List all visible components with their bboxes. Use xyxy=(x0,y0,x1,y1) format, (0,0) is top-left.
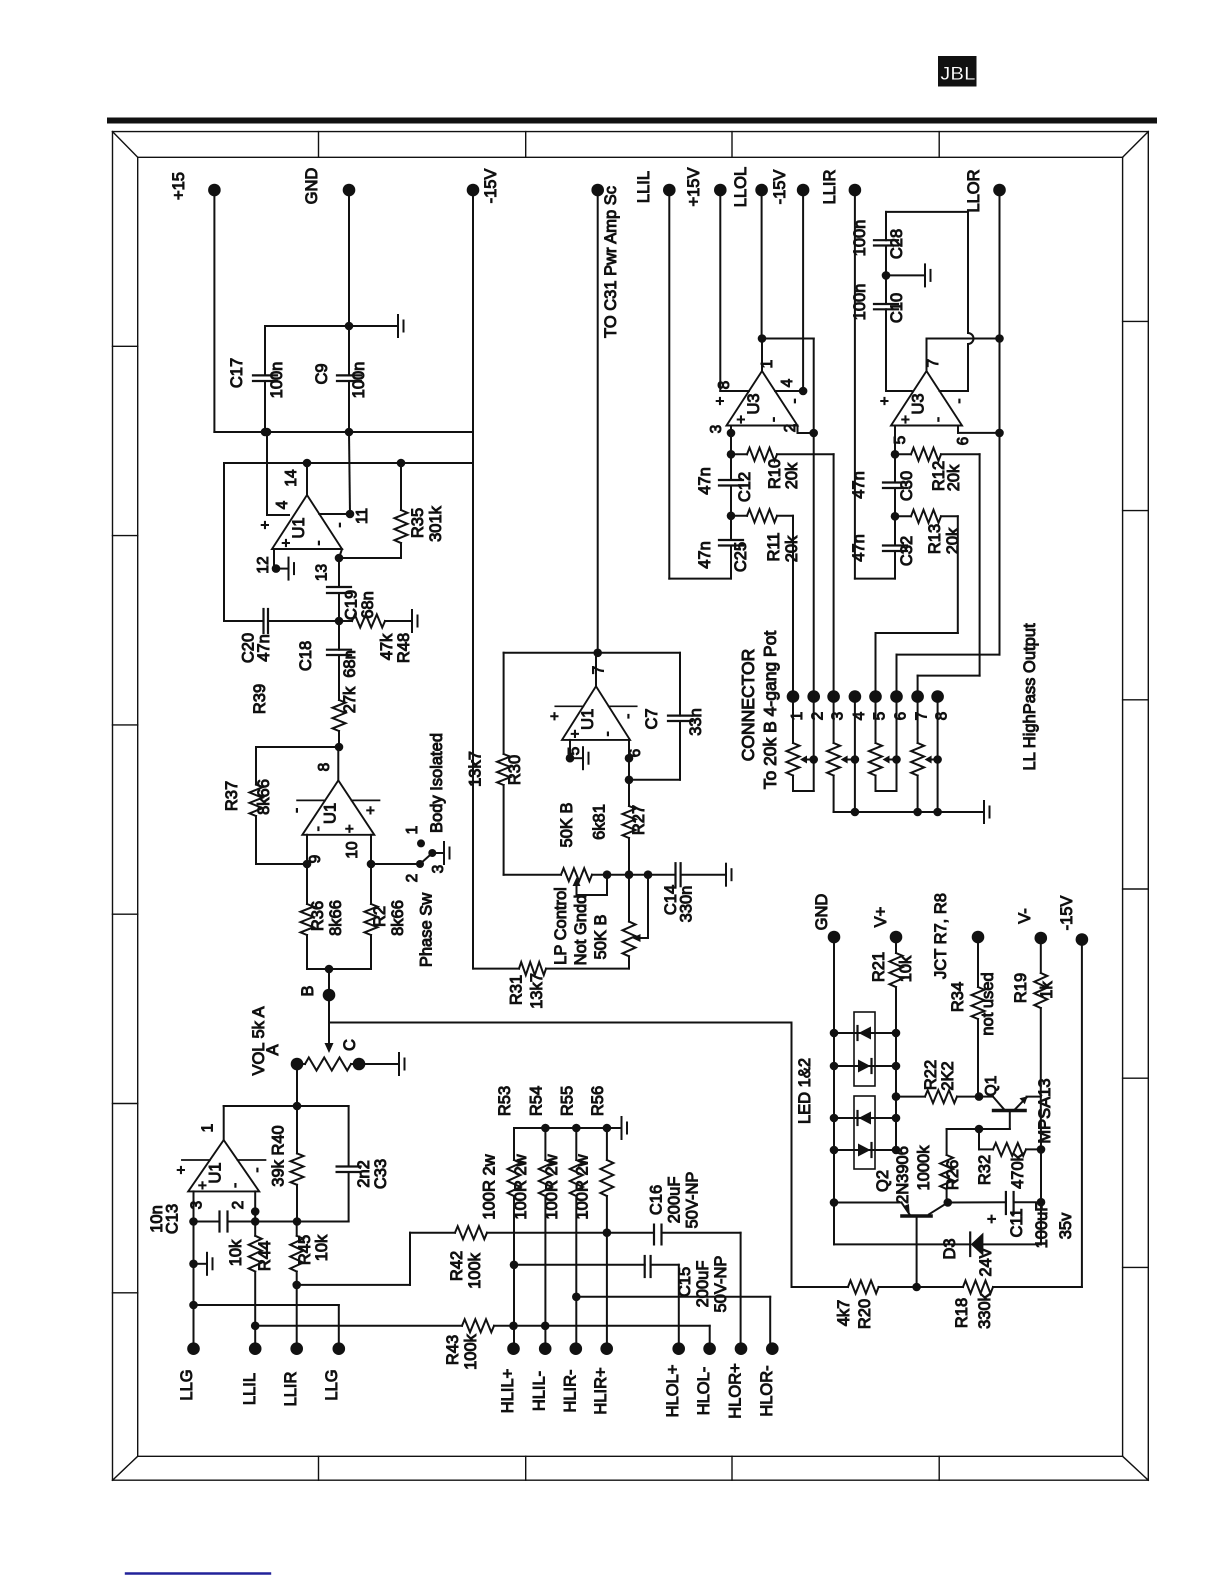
svg-text:33n: 33n xyxy=(687,708,705,736)
svg-text:HLOL-: HLOL- xyxy=(695,1367,713,1416)
svg-text:2N3906: 2N3906 xyxy=(894,1146,912,1204)
svg-text:8k66: 8k66 xyxy=(255,779,273,815)
svg-text:-: - xyxy=(309,826,326,831)
svg-text:-: - xyxy=(310,541,327,546)
svg-text:4k7: 4k7 xyxy=(835,1300,853,1327)
svg-text:3: 3 xyxy=(708,425,725,434)
svg-text:3: 3 xyxy=(830,712,847,721)
svg-text:3: 3 xyxy=(189,1201,206,1210)
svg-text:1k: 1k xyxy=(1038,981,1056,999)
svg-text:2: 2 xyxy=(810,712,827,721)
svg-text:2: 2 xyxy=(230,1201,247,1210)
svg-text:To 20k B 4-gang Pot: To 20k B 4-gang Pot xyxy=(760,631,780,790)
svg-text:U3: U3 xyxy=(745,393,763,414)
svg-text:200uF: 200uF xyxy=(694,1261,712,1308)
svg-text:LLIL: LLIL xyxy=(635,171,653,203)
svg-text:50K B: 50K B xyxy=(592,915,610,960)
svg-text:-: - xyxy=(227,1183,244,1188)
svg-text:R35: R35 xyxy=(409,508,427,538)
svg-text:C: C xyxy=(341,1039,359,1051)
svg-text:-: - xyxy=(951,399,968,404)
svg-text:6: 6 xyxy=(893,712,910,721)
svg-text:+: + xyxy=(195,1181,212,1190)
svg-text:1: 1 xyxy=(404,826,421,835)
svg-text:100n: 100n xyxy=(851,220,869,257)
svg-text:8: 8 xyxy=(934,712,951,721)
svg-text:HLIL-: HLIL- xyxy=(531,1371,549,1411)
svg-text:100k: 100k xyxy=(462,1333,480,1370)
svg-text:MPSA13: MPSA13 xyxy=(1036,1078,1054,1143)
svg-text:Not Gndd: Not Gndd xyxy=(572,895,590,966)
svg-text:10k: 10k xyxy=(313,1234,331,1261)
svg-text:8: 8 xyxy=(316,763,333,772)
svg-text:R21: R21 xyxy=(870,952,888,982)
svg-text:HLOL+: HLOL+ xyxy=(664,1365,682,1418)
svg-text:R45: R45 xyxy=(296,1235,314,1265)
svg-text:R2: R2 xyxy=(371,906,389,927)
svg-text:C11: C11 xyxy=(1008,1208,1026,1237)
svg-text:2K2: 2K2 xyxy=(939,1061,957,1090)
svg-text:C12: C12 xyxy=(736,472,754,502)
svg-text:+: + xyxy=(898,415,915,424)
svg-text:LLG: LLG xyxy=(323,1369,341,1400)
svg-text:GND: GND xyxy=(303,168,321,205)
svg-text:7: 7 xyxy=(591,666,608,675)
svg-text:Phase Sw: Phase Sw xyxy=(418,893,436,967)
svg-text:Q1: Q1 xyxy=(983,1076,1000,1097)
svg-text:HLIR+: HLIR+ xyxy=(592,1367,610,1414)
svg-text:Body Isolated: Body Isolated xyxy=(428,733,446,833)
svg-text:R54: R54 xyxy=(527,1086,545,1116)
svg-text:-: - xyxy=(786,399,803,404)
svg-text:-: - xyxy=(620,714,637,719)
svg-text:+: + xyxy=(341,824,358,833)
svg-text:-: - xyxy=(765,417,782,422)
svg-text:Q2: Q2 xyxy=(874,1170,892,1192)
svg-text:LP Control: LP Control xyxy=(552,887,570,965)
svg-text:-: - xyxy=(288,808,305,813)
svg-text:C10: C10 xyxy=(888,293,906,323)
svg-text:5: 5 xyxy=(566,747,583,756)
svg-text:LLOR: LLOR xyxy=(965,169,983,212)
svg-text:7: 7 xyxy=(914,712,931,721)
svg-text:U1: U1 xyxy=(207,1162,225,1183)
svg-text:C16: C16 xyxy=(648,1185,666,1215)
svg-text:+: + xyxy=(712,396,729,405)
svg-text:4: 4 xyxy=(274,500,291,509)
svg-text:47n: 47n xyxy=(850,534,868,562)
svg-text:+: + xyxy=(278,538,295,547)
svg-text:68n: 68n xyxy=(359,591,377,619)
svg-text:2: 2 xyxy=(782,424,799,433)
svg-text:not used: not used xyxy=(979,972,997,1035)
svg-text:R42: R42 xyxy=(448,1251,466,1281)
svg-text:R37: R37 xyxy=(223,781,241,811)
svg-text:50K B: 50K B xyxy=(558,803,576,848)
svg-text:-: - xyxy=(249,1168,266,1173)
svg-text:C7: C7 xyxy=(643,708,661,729)
svg-text:39k R40: 39k R40 xyxy=(270,1125,288,1186)
svg-text:+: + xyxy=(363,806,380,815)
svg-text:R13: R13 xyxy=(926,524,944,554)
svg-text:-15V: -15V xyxy=(771,170,789,205)
svg-text:LLIR: LLIR xyxy=(821,169,839,204)
svg-text:11: 11 xyxy=(354,508,371,524)
svg-text:R26: R26 xyxy=(944,1160,962,1190)
svg-text:9: 9 xyxy=(307,855,324,864)
svg-text:-: - xyxy=(599,731,616,736)
svg-text:C15: C15 xyxy=(676,1267,694,1297)
svg-text:-15V: -15V xyxy=(482,169,500,204)
svg-text:C25: C25 xyxy=(732,542,750,572)
svg-text:10: 10 xyxy=(344,841,361,859)
svg-text:U1: U1 xyxy=(579,709,597,730)
svg-text:6k81: 6k81 xyxy=(591,804,609,840)
svg-text:C33: C33 xyxy=(372,1159,390,1189)
svg-text:R11: R11 xyxy=(765,532,783,561)
svg-text:R53: R53 xyxy=(496,1086,514,1116)
svg-text:68n: 68n xyxy=(341,650,359,678)
svg-text:C28: C28 xyxy=(888,229,906,259)
svg-text:10k: 10k xyxy=(897,955,915,982)
svg-text:2n2: 2n2 xyxy=(355,1160,373,1188)
svg-text:R19: R19 xyxy=(1012,973,1030,1003)
svg-text:C17: C17 xyxy=(228,358,246,388)
svg-text:+15V: +15V xyxy=(685,168,703,207)
svg-text:C9: C9 xyxy=(313,363,331,384)
svg-text:R44: R44 xyxy=(256,1241,274,1271)
svg-text:R10: R10 xyxy=(766,459,784,489)
svg-text:200uF: 200uF xyxy=(666,1177,684,1224)
svg-text:47n: 47n xyxy=(255,634,273,662)
svg-text:4: 4 xyxy=(851,711,868,720)
svg-text:20k: 20k xyxy=(783,462,801,489)
svg-text:+: + xyxy=(173,1165,190,1174)
svg-text:LLIL: LLIL xyxy=(241,1373,259,1405)
svg-text:50V-NP: 50V-NP xyxy=(712,1256,730,1313)
svg-text:6: 6 xyxy=(627,749,644,758)
svg-text:R43: R43 xyxy=(444,1335,462,1365)
svg-text:-: - xyxy=(331,523,348,528)
svg-text:10k: 10k xyxy=(227,1239,245,1266)
svg-text:CONNECTOR: CONNECTOR xyxy=(738,649,758,761)
svg-text:330k: 330k xyxy=(976,1292,994,1329)
svg-text:R18: R18 xyxy=(953,1298,971,1328)
svg-text:13: 13 xyxy=(314,564,331,581)
svg-text:GND: GND xyxy=(813,894,831,931)
svg-text:R22: R22 xyxy=(922,1060,940,1090)
svg-text:13k7: 13k7 xyxy=(467,751,485,787)
svg-text:100k: 100k xyxy=(466,1252,484,1289)
svg-text:R31: R31 xyxy=(508,975,526,1005)
svg-text:A: A xyxy=(264,1044,282,1055)
svg-text:50V-NP: 50V-NP xyxy=(684,1172,702,1229)
svg-text:R20: R20 xyxy=(856,1299,874,1329)
svg-text:301k: 301k xyxy=(427,505,445,542)
svg-text:100n: 100n xyxy=(268,362,286,399)
svg-text:20k: 20k xyxy=(945,464,963,491)
svg-text:R34: R34 xyxy=(949,982,967,1012)
svg-text:330n: 330n xyxy=(678,886,696,923)
svg-text:C30: C30 xyxy=(898,471,916,501)
svg-text:C18: C18 xyxy=(297,641,315,671)
svg-text:+15: +15 xyxy=(170,172,188,200)
svg-text:+: + xyxy=(567,729,584,738)
svg-text:HLOR+: HLOR+ xyxy=(727,1363,745,1418)
svg-text:+: + xyxy=(984,1214,1001,1223)
svg-text:2: 2 xyxy=(404,874,421,883)
svg-text:LLOL: LLOL xyxy=(732,167,750,207)
svg-text:HLOR-: HLOR- xyxy=(758,1365,776,1416)
svg-text:C19: C19 xyxy=(343,590,361,620)
svg-text:13k7: 13k7 xyxy=(528,973,546,1009)
svg-text:-: - xyxy=(930,417,947,422)
svg-text:LLIR: LLIR xyxy=(282,1371,300,1406)
svg-text:B: B xyxy=(299,985,317,996)
svg-text:C13: C13 xyxy=(164,1204,182,1234)
svg-text:24V: 24V xyxy=(977,1247,995,1276)
svg-text:20k: 20k xyxy=(944,527,962,554)
svg-text:R32: R32 xyxy=(976,1155,994,1185)
svg-text:JCT R7, R8: JCT R7, R8 xyxy=(932,893,950,979)
svg-text:3: 3 xyxy=(430,865,447,874)
svg-text:HLIL+: HLIL+ xyxy=(499,1369,517,1414)
svg-text:7: 7 xyxy=(925,359,942,368)
svg-text:V-: V- xyxy=(1016,908,1034,924)
svg-text:+: + xyxy=(877,396,894,405)
svg-text:100R 2w: 100R 2w xyxy=(481,1154,499,1219)
svg-text:100n: 100n xyxy=(350,362,368,399)
svg-text:HLIR-: HLIR- xyxy=(561,1369,579,1412)
svg-text:R36: R36 xyxy=(309,901,327,931)
svg-text:R30: R30 xyxy=(506,755,524,785)
svg-text:LLG: LLG xyxy=(178,1369,196,1400)
svg-text:+: + xyxy=(257,520,274,529)
svg-text:47n: 47n xyxy=(696,467,714,495)
svg-text:35v: 35v xyxy=(1057,1212,1075,1239)
svg-text:-15V: -15V xyxy=(1058,896,1076,931)
svg-text:R48: R48 xyxy=(395,633,413,663)
svg-text:470k: 470k xyxy=(1009,1152,1027,1189)
svg-text:LED 1&2: LED 1&2 xyxy=(796,1058,814,1124)
svg-text:R27: R27 xyxy=(630,805,648,835)
svg-text:5: 5 xyxy=(892,436,909,445)
svg-text:8: 8 xyxy=(716,381,733,390)
svg-text:R39: R39 xyxy=(251,684,269,714)
svg-text:12: 12 xyxy=(255,556,272,573)
svg-text:R55: R55 xyxy=(558,1086,576,1116)
svg-text:1: 1 xyxy=(789,712,806,721)
svg-text:47k: 47k xyxy=(378,633,396,660)
svg-text:U1: U1 xyxy=(290,517,308,538)
svg-text:V+: V+ xyxy=(872,907,890,928)
svg-text:U1: U1 xyxy=(321,803,339,824)
svg-text:1: 1 xyxy=(200,1124,217,1133)
svg-text:20k: 20k xyxy=(783,535,801,562)
svg-text:8k66: 8k66 xyxy=(327,900,345,936)
svg-text:LL HighPass Output: LL HighPass Output xyxy=(1021,623,1039,770)
svg-text:5: 5 xyxy=(872,712,889,721)
svg-text:100n: 100n xyxy=(851,284,869,321)
svg-text:+: + xyxy=(546,712,563,721)
svg-text:27k: 27k xyxy=(341,686,359,713)
svg-text:4: 4 xyxy=(779,378,796,387)
svg-text:8k66: 8k66 xyxy=(389,900,407,936)
svg-text:+: + xyxy=(733,415,750,424)
svg-text:VOL 5k A: VOL 5k A xyxy=(250,1006,268,1075)
svg-text:C32: C32 xyxy=(898,536,916,566)
svg-text:47n: 47n xyxy=(850,471,868,499)
svg-text:JBL: JBL xyxy=(940,64,976,85)
svg-text:14: 14 xyxy=(283,469,300,487)
svg-text:6: 6 xyxy=(955,437,972,446)
svg-text:U3: U3 xyxy=(910,393,928,414)
svg-text:TO C31 Pwr Amp Sc: TO C31 Pwr Amp Sc xyxy=(602,186,620,338)
svg-text:D3: D3 xyxy=(941,1238,959,1259)
svg-text:1000k: 1000k xyxy=(915,1145,933,1191)
svg-text:R56: R56 xyxy=(589,1086,607,1116)
svg-text:47n: 47n xyxy=(696,541,714,569)
